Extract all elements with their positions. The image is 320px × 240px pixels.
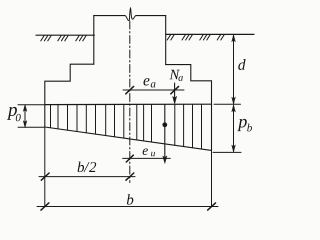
b tick right: [208, 203, 216, 210]
dimension b/2 line: [39, 176, 135, 178]
label e_a: [143, 78, 155, 87]
base extension line right: [214, 103, 241, 105]
force Na arrowhead: [173, 96, 177, 103]
label Na: [169, 70, 182, 81]
pressure resultant line: [164, 104, 166, 157]
pressure trapezoid bottom edge: [45, 127, 212, 150]
pressure hatching: [51, 104, 202, 148]
ground hatch group right 4: [217, 35, 224, 40]
label p_b: [237, 119, 252, 132]
label b: [127, 194, 133, 205]
force Na action line: [174, 83, 176, 98]
e_a tick at centre line: [126, 86, 134, 93]
ground hatch group left 2: [58, 36, 68, 41]
e_a tick at Na line: [171, 86, 179, 93]
b/2 tick right: [126, 173, 134, 180]
right foundation steps: [166, 65, 212, 105]
ground hatch group left 1: [41, 36, 51, 41]
p_b arrow up: [232, 105, 236, 112]
label d: [238, 59, 245, 70]
wall top edge left segment: [94, 15, 125, 17]
centre line (dash-dot): [129, 21, 131, 183]
ground hatch group right 3: [200, 35, 210, 40]
p0 arrow down: [23, 121, 27, 128]
p_b arrow down: [232, 145, 236, 152]
pressure resultant dot: [162, 122, 167, 127]
wall right edge: [165, 16, 167, 65]
dimension e_a line: [123, 89, 184, 91]
right extension line: [211, 150, 213, 206]
b tick left: [41, 203, 49, 210]
ground line left: [36, 34, 94, 36]
label b/2: [78, 162, 97, 173]
wall left edge: [93, 16, 95, 65]
label e_u: [143, 148, 155, 156]
left foundation steps: [45, 64, 94, 104]
d arrow down: [232, 97, 236, 104]
p0 top extension line: [18, 104, 44, 106]
e_u tick at centre line: [126, 155, 133, 162]
ground hatch group left 3: [76, 36, 86, 41]
label p0: [7, 107, 21, 121]
dimension e_u line: [123, 157, 171, 159]
break mark squiggle: [125, 8, 136, 21]
p0 dimension line: [24, 106, 26, 126]
left extension line: [44, 127, 46, 207]
ground hatch group right 2: [182, 35, 192, 40]
p0 bottom extension line: [18, 126, 44, 128]
p_b dimension line: [233, 106, 235, 152]
pressure trapezoid left edge: [44, 105, 46, 127]
ground hatch group right 1: [167, 35, 174, 40]
ground line right: [166, 33, 254, 35]
wall top edge right segment: [136, 15, 166, 17]
foundation base line: [45, 103, 212, 105]
b/2 tick left: [41, 173, 49, 180]
pressure trapezoid right edge: [211, 104, 213, 150]
d dimension line: [233, 36, 235, 104]
resultant arrowhead at e_u: [163, 156, 167, 163]
p_b bottom extension line: [213, 151, 241, 153]
p0 arrow up: [23, 105, 27, 112]
d arrow up: [232, 35, 236, 42]
dimension b line: [37, 206, 218, 208]
